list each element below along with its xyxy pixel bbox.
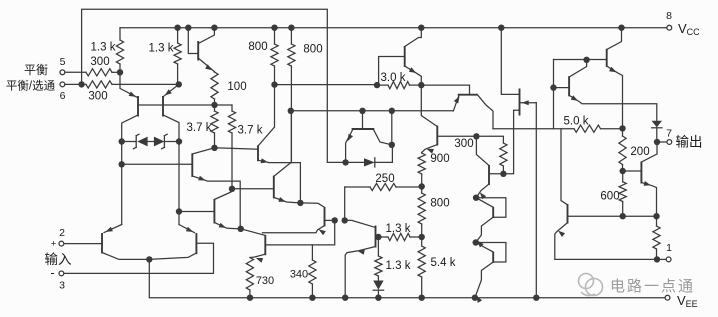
resistor 1.3k R17 (378, 233, 421, 240)
label 200 (630, 146, 649, 158)
wire emitter row y111 (291, 110, 453, 112)
label 300 R19 (454, 138, 473, 150)
transistor Q16 (345, 220, 379, 297)
wire zener row right (165, 141, 180, 143)
svg-text:3.0 k: 3.0 k (381, 72, 406, 84)
transistor Q6 (179, 189, 241, 229)
label VEE (677, 293, 698, 309)
resistor 250 R16 (345, 183, 422, 190)
wire pin3 lead to Q4 base riser (64, 243, 214, 273)
terminal pin 1 (666, 257, 671, 262)
terminal pin 8 VCC (667, 25, 672, 30)
label 300 R1 (90, 56, 109, 68)
wire 800b drop to emitter row (290, 111, 292, 163)
terminal pin 3 (59, 271, 64, 276)
label 800 R9 (303, 44, 322, 56)
resistor 5.0k R20 (493, 125, 623, 132)
wire row84 long (275, 84, 378, 86)
svg-text:300: 300 (90, 56, 109, 68)
label plus (51, 239, 57, 250)
label 100 (227, 81, 246, 93)
svg-text:250: 250 (375, 173, 394, 185)
svg-text:输出: 输出 (676, 135, 703, 150)
wire pin6 lead (65, 83, 86, 85)
svg-text:1.3 k: 1.3 k (386, 260, 411, 272)
svg-text:1.3 k: 1.3 k (91, 42, 116, 54)
label 5.4k (431, 257, 456, 269)
pin number 6 (60, 90, 66, 102)
svg-text:平衡/选通: 平衡/选通 (6, 80, 56, 93)
svg-text:平衡: 平衡 (24, 63, 48, 77)
label 300 R2 (88, 91, 107, 103)
svg-text:3.7 k: 3.7 k (187, 122, 212, 134)
svg-text:100: 100 (227, 81, 246, 93)
zener D2 (154, 134, 167, 149)
label 1.3k R4 (149, 43, 174, 55)
resistor 1.3k R4 (174, 28, 181, 85)
resistor 800 R9 (288, 28, 295, 163)
transistor Q20 (diode wired) (475, 243, 506, 303)
pin number 8 (666, 10, 672, 22)
label 250 (375, 173, 394, 185)
wire bottom VEE rail (149, 259, 665, 297)
label output (676, 135, 703, 150)
resistor 800 R12 (418, 187, 425, 238)
wire Q2 collector column (178, 142, 180, 225)
label VCC (678, 21, 700, 37)
wire 3.0k row to Q11 base (421, 85, 469, 95)
transistor Q15 (263, 203, 335, 235)
wire Q12 emitter down to VEE (535, 103, 537, 298)
wire 3.7k2 base row (232, 188, 274, 190)
pin number 7 (666, 128, 672, 140)
resistor 1.3k R18 (375, 237, 382, 281)
transistor Q2 (163, 84, 179, 141)
svg-text:200: 200 (630, 146, 649, 158)
resistor 100 R5 (211, 72, 218, 105)
svg-text:5: 5 (60, 56, 66, 68)
svg-text:1.3 k: 1.3 k (149, 43, 174, 55)
terminal pin 6 (60, 82, 65, 87)
svg-text:-: - (50, 265, 54, 280)
svg-text:3.7 k: 3.7 k (238, 125, 263, 137)
resistor 5.4k R13 (418, 237, 425, 298)
transistor Q10 (379, 28, 422, 85)
wire pin5 lead (65, 71, 86, 73)
pin number 1 (666, 242, 672, 254)
resistor 3.7k R6 (211, 105, 218, 148)
resistor Rout unlabeled (653, 216, 660, 259)
terminal pin 7 output (667, 140, 672, 145)
terminal pin 2 (59, 241, 64, 246)
resistor 1.3k R3 (116, 28, 123, 73)
svg-text:输入: 输入 (45, 252, 72, 267)
wire zener row left (122, 141, 136, 143)
svg-text:800: 800 (303, 44, 322, 56)
label 5.0k (564, 116, 589, 128)
svg-text:900: 900 (430, 153, 449, 165)
label 340 (290, 269, 308, 281)
label 3.7k R7 (238, 125, 263, 137)
wire pin2 lead to Q3 base (64, 243, 102, 245)
transistor Q14 (232, 163, 300, 203)
svg-text:8: 8 (666, 10, 672, 22)
svg-text:300: 300 (454, 138, 473, 150)
pin number 3 (59, 280, 65, 292)
svg-text:6: 6 (60, 90, 66, 102)
label 1.3k R17 (386, 223, 411, 235)
resistor 800 R8 (271, 28, 278, 85)
transistor Q7 (diode connected) (188, 28, 214, 72)
wire strobe loop from pin 6 up and across to diode row (82, 9, 346, 162)
svg-text:1.3 k: 1.3 k (386, 223, 411, 235)
label 3.0k (381, 72, 406, 84)
label 600 (600, 191, 619, 203)
terminal pin 5 (60, 70, 65, 75)
diode D5 output (652, 121, 662, 142)
resistor 3.0k R10 (377, 82, 421, 89)
resistor 300 R19 (500, 143, 507, 174)
label 800 R8 (248, 41, 267, 53)
resistor 730 R14 (246, 258, 253, 298)
transistor Q8 (346, 111, 392, 163)
wire node row under diodes to Q5 base (122, 163, 193, 165)
wire pin7 stub (657, 141, 667, 143)
label input (45, 252, 72, 267)
svg-text:300: 300 (88, 91, 107, 103)
diode D3 strobe (346, 145, 393, 167)
zener D1 (133, 134, 147, 149)
resistor 300 (pin6) R2 (86, 81, 179, 88)
svg-text:1: 1 (666, 242, 672, 254)
svg-text:340: 340 (290, 269, 308, 281)
label 800 R12 (430, 198, 449, 210)
svg-text:3: 3 (59, 280, 65, 292)
transistor Q17 (241, 220, 335, 262)
transistor Q13 (421, 85, 476, 154)
svg-text:电路一点通: 电路一点通 (610, 278, 695, 295)
wire Q13 base row (476, 136, 503, 143)
resistor 600 R22 (619, 171, 626, 216)
svg-text:7: 7 (666, 128, 672, 140)
transistor Q3 (102, 225, 149, 260)
svg-text:800: 800 (248, 41, 267, 53)
transistor Q22 (554, 60, 657, 121)
label balance (24, 63, 48, 77)
label 900 (430, 153, 449, 165)
svg-text:5.0 k: 5.0 k (564, 116, 589, 128)
wire VCC top rail (120, 27, 667, 29)
label 1.3k R3 (91, 42, 116, 54)
resistor 900 R11 (418, 153, 425, 187)
svg-text:5.4 k: 5.4 k (431, 257, 456, 269)
pin number 2 (59, 227, 65, 239)
transistor Q18 (476, 136, 503, 199)
wire 250 drop (344, 187, 346, 220)
label balance/strobe (6, 80, 56, 93)
transistor Q23 (623, 142, 658, 216)
resistor 200 R21 (619, 128, 626, 171)
wire Q1Q2 base row to 3.7k (138, 104, 232, 106)
svg-text:+: + (51, 239, 57, 250)
wire Q21 base riser (553, 60, 555, 129)
wire pin1 stub (657, 258, 666, 260)
terminal pin 4 VEE (665, 295, 670, 300)
svg-text:800: 800 (430, 198, 449, 210)
wire base row y216 (568, 215, 657, 217)
transistor Q4 (149, 225, 196, 260)
transistor Q1 (120, 72, 138, 224)
svg-text:600: 600 (600, 191, 619, 203)
wire zener mid (148, 141, 154, 143)
label minus (50, 265, 54, 280)
label 1.3k R18 (386, 260, 411, 272)
transistor Q24 (555, 129, 657, 260)
watermark logo (579, 274, 603, 296)
svg-text:730: 730 (256, 275, 274, 287)
pin number 5 (60, 56, 66, 68)
diode D4 (373, 281, 383, 298)
resistor 340 R15 (309, 245, 316, 298)
svg-text:2: 2 (59, 227, 65, 239)
label 730 (256, 275, 274, 287)
wire y111 right drop (391, 111, 393, 145)
transistor Q9 (215, 85, 301, 203)
transistor Q12 (501, 28, 536, 174)
transistor Q11 (453, 95, 493, 129)
resistor 300 (pin5) R1 (86, 69, 120, 76)
label 3.7k R6 (187, 122, 212, 134)
transistor Q19 (diode wired) (476, 198, 506, 248)
transistor Q21 (554, 28, 623, 129)
watermark text (610, 278, 695, 295)
resistor 3.7k R7 (228, 105, 235, 189)
transistor Q5 (192, 148, 240, 229)
